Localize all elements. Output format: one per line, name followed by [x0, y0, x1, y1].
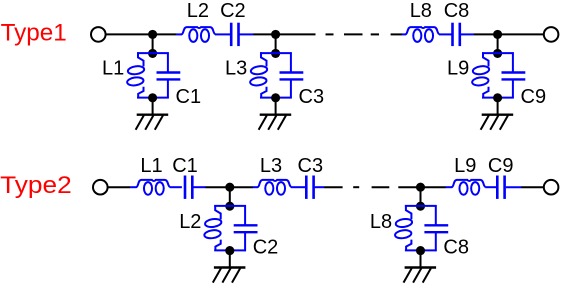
junction dot at tank L1||C1 top — [148, 49, 157, 58]
svg-text:L1: L1 — [102, 58, 124, 80]
ellipsis dash 2 (Type2) — [372, 186, 390, 188]
wire from C2 to node B — [253, 33, 275, 35]
svg-text:L8: L8 — [370, 211, 392, 233]
capacitor C8 (shunt) — [424, 205, 448, 251]
wire (blue lead) from C9 — [506, 186, 522, 188]
wire (blue lead) from C2 — [239, 33, 253, 35]
wire stem from node to tank L3||C3 — [275, 34, 277, 53]
junction dot at tank L9||C9 bottom — [493, 93, 502, 102]
tank L1||C1 top rail wire — [137, 52, 169, 54]
tank L9||C9 bottom rail wire — [482, 97, 514, 99]
wire (blue lead) into L2 — [176, 33, 182, 35]
svg-text:C8: C8 — [443, 237, 469, 259]
tank L2||C2 top rail wire — [214, 205, 246, 207]
wire stem from tank bottom to ground — [497, 98, 499, 115]
wire stem from tank bottom to ground — [152, 98, 154, 115]
svg-text:Type2: Type2 — [0, 172, 72, 199]
wire (blue lead) L3 to C3 — [291, 186, 305, 188]
wire stem from node to tank L2||C2 — [229, 187, 231, 206]
wire stem from node to tank L9||C9 — [497, 34, 499, 53]
wire (blue lead) L1 to C1 — [170, 186, 182, 188]
tank L8||C8 top rail wire — [405, 205, 437, 207]
junction dot at tank L8||C8 bottom — [416, 246, 425, 255]
svg-text:L9: L9 — [447, 58, 469, 80]
wire from node D toward L3 — [230, 186, 253, 188]
terminal T1-in (input port circle, Type1) — [91, 27, 106, 42]
capacitor C9 (shunt) — [502, 52, 526, 98]
svg-text:C2: C2 — [220, 0, 246, 22]
junction dot at tank L3||C3 bottom — [271, 93, 280, 102]
inductor L3 (shunt, vertical loops) — [250, 52, 268, 98]
wire from input terminal to node A — [106, 33, 153, 35]
capacitor C2 (shunt) — [234, 205, 258, 251]
capacitor C1 (series, Type2) — [185, 176, 192, 199]
tank L3||C3 top rail wire — [260, 52, 292, 54]
wire from C1 to node D — [205, 186, 229, 188]
tank L2||C2 bottom rail wire — [214, 249, 246, 251]
ground symbol below L2||C2 — [213, 268, 246, 283]
svg-text:L2: L2 — [187, 0, 209, 22]
node junction dot on main line (net B) — [271, 30, 280, 39]
svg-text:C9: C9 — [488, 155, 514, 177]
junction dot at tank L9||C9 top — [493, 49, 502, 58]
svg-text:L2: L2 — [179, 211, 201, 233]
svg-text:C9: C9 — [521, 86, 547, 108]
node junction dot on main line (net D) — [225, 183, 234, 192]
ellipsis dash 1 (Type1) — [326, 33, 334, 35]
wire stem from tank bottom to ground — [275, 98, 277, 115]
wire from node B toward ellipsis — [276, 33, 316, 35]
node junction dot on main line (net A) — [148, 30, 157, 39]
svg-text:C8: C8 — [444, 0, 470, 22]
inductor L2 (shunt, vertical loops) — [204, 205, 222, 251]
svg-text:L3: L3 — [225, 58, 247, 80]
ellipsis dash 3 (Type1) — [371, 33, 379, 35]
svg-text:L9: L9 — [454, 155, 476, 177]
svg-text:C2: C2 — [253, 237, 279, 259]
svg-text:C1: C1 — [176, 86, 202, 108]
wire from C8 to node C — [474, 33, 498, 35]
inductor L2 (series) — [182, 27, 216, 42]
junction dot at tank L3||C3 top — [271, 49, 280, 58]
wire from C3 to ellipsis — [324, 186, 342, 188]
tank L3||C3 bottom rail wire — [260, 97, 292, 99]
wire (blue lead) into L8 — [402, 33, 406, 35]
capacitor C3 (series, Type2) — [306, 176, 313, 199]
wire (blue lead) into L3 — [253, 186, 258, 188]
node junction dot on main line (net C) — [493, 30, 502, 39]
wire stem from tank bottom to ground — [229, 250, 231, 267]
wire from C9 to output terminal — [521, 186, 543, 188]
capacitor C1 (shunt) — [157, 52, 181, 98]
wire from node E toward L9 — [421, 186, 446, 188]
inductor L9 (series, Type2) — [452, 180, 486, 195]
inductor L8 (series) — [406, 27, 440, 42]
wire from input terminal to L1 — [108, 186, 131, 188]
inductor L1 (shunt, vertical loops) — [127, 52, 145, 98]
junction dot at tank L8||C8 top — [416, 202, 425, 211]
wire (blue lead) L9 to C9 — [485, 186, 496, 188]
svg-text:L3: L3 — [260, 155, 282, 177]
ellipsis dash 1 (Type2) — [353, 186, 359, 188]
inductor L8 (shunt, vertical loops) — [395, 205, 413, 251]
svg-text:L8: L8 — [410, 0, 432, 22]
terminal T2-out (output port circle, Type2) — [544, 180, 559, 195]
tank L1||C1 bottom rail wire — [137, 97, 169, 99]
tank L9||C9 top rail wire — [482, 52, 514, 54]
terminal T1-out (output port circle, Type1) — [544, 27, 559, 42]
svg-text:C1: C1 — [172, 155, 198, 177]
wire (blue lead) from C3 — [315, 186, 325, 188]
wire from ellipsis to node E — [398, 186, 420, 188]
wire (blue lead) L8 to C8 — [439, 33, 452, 35]
terminal T2-in (input port circle, Type2) — [93, 180, 108, 195]
capacitor C3 (shunt) — [280, 52, 304, 98]
wire stem from node to tank L8||C8 — [420, 187, 422, 206]
wire stem from tank bottom to ground — [420, 250, 422, 267]
ground symbol below L1||C1 — [136, 115, 169, 130]
capacitor C8 (series) — [453, 23, 460, 46]
wire from ellipsis to L8 — [391, 33, 402, 35]
wire (blue lead) from C1 — [193, 186, 205, 188]
junction dot at tank L2||C2 bottom — [225, 246, 234, 255]
tank L8||C8 bottom rail wire — [405, 249, 437, 251]
svg-text:C3: C3 — [298, 155, 324, 177]
junction dot at tank L2||C2 top — [225, 202, 234, 211]
svg-text:Type1: Type1 — [1, 19, 67, 46]
inductor L1 (series, Type2) — [136, 180, 170, 195]
inductor L9 (shunt, vertical loops) — [472, 52, 490, 98]
wire (blue lead) L2 to C2 — [215, 33, 230, 35]
wire stem from node to tank L1||C1 — [152, 34, 154, 53]
wire (blue lead) from C8 — [461, 33, 474, 35]
ground symbol below L3||C3 — [259, 115, 292, 130]
wire from node A toward L2 — [153, 33, 177, 35]
junction dot at tank L1||C1 bottom — [148, 93, 157, 102]
svg-text:L1: L1 — [140, 155, 162, 177]
ground symbol below L8||C8 — [404, 268, 437, 283]
ellipsis dash 2 (Type1) — [344, 33, 363, 35]
capacitor C2 (series) — [231, 23, 238, 46]
inductor L3 (series, Type2) — [258, 180, 292, 195]
node junction dot on main line (net E) — [416, 183, 425, 192]
svg-text:C3: C3 — [299, 86, 325, 108]
wire (blue lead) into L9 — [446, 186, 453, 188]
wire (blue lead) into L1 — [130, 186, 137, 188]
capacitor C9 (series, Type2) — [497, 176, 504, 199]
ground symbol below L9||C9 — [481, 115, 514, 130]
wire from node C to output terminal — [498, 33, 544, 35]
